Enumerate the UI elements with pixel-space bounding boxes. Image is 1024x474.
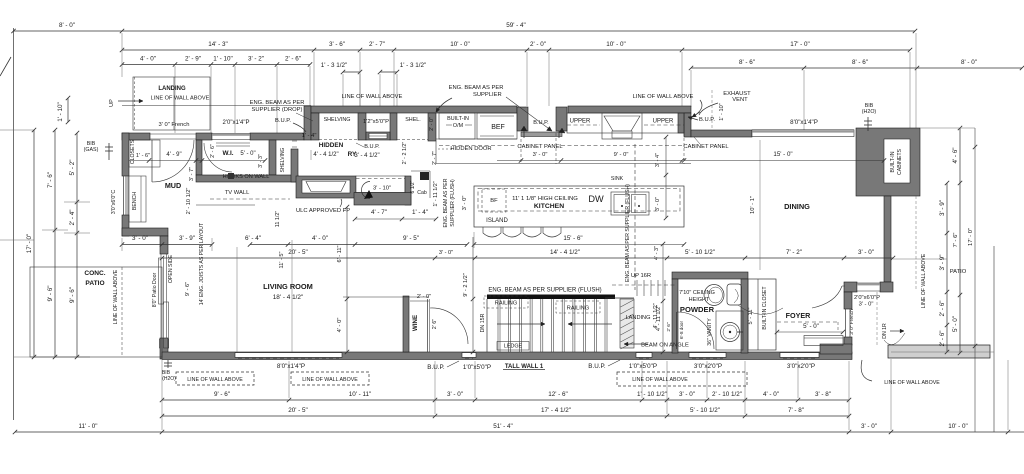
svg-text:2' - 7": 2' - 7" bbox=[432, 151, 438, 165]
svg-text:17' - 4 1/2": 17' - 4 1/2" bbox=[541, 407, 571, 414]
svg-text:3' - 8": 3' - 8" bbox=[815, 391, 831, 398]
svg-text:1'2"x5'0"P: 1'2"x5'0"P bbox=[363, 119, 389, 125]
svg-text:3' - 0": 3' - 0" bbox=[533, 152, 548, 158]
svg-text:2' 6": 2' 6" bbox=[432, 319, 438, 330]
svg-text:7' - 6": 7' - 6" bbox=[953, 233, 959, 248]
svg-text:3' - 0": 3' - 0" bbox=[859, 302, 874, 308]
svg-text:2' - 10 1/2": 2' - 10 1/2" bbox=[712, 391, 742, 398]
svg-text:B.U.P.: B.U.P. bbox=[364, 144, 380, 150]
svg-text:6' - 11": 6' - 11" bbox=[337, 246, 343, 263]
svg-text:4' - 9": 4' - 9" bbox=[166, 152, 181, 158]
svg-text:11' - 5": 11' - 5" bbox=[279, 252, 285, 269]
svg-text:8' - 0": 8' - 0" bbox=[59, 22, 75, 29]
svg-text:1' - 10 1/2": 1' - 10 1/2" bbox=[637, 391, 667, 398]
svg-text:8' - 0": 8' - 0" bbox=[961, 59, 977, 66]
svg-text:2' - 6": 2' - 6" bbox=[939, 330, 946, 346]
svg-text:ENG. BEAM AS PER: ENG. BEAM AS PER bbox=[443, 178, 449, 227]
svg-text:CABINET PANEL: CABINET PANEL bbox=[517, 144, 563, 150]
svg-text:HIDDEN DOOR: HIDDEN DOOR bbox=[450, 146, 491, 152]
svg-text:3' 0" French: 3' 0" French bbox=[159, 122, 190, 128]
svg-text:2' - 9": 2' - 9" bbox=[185, 56, 201, 63]
svg-text:1' - 3 1/2": 1' - 3 1/2" bbox=[321, 62, 348, 69]
svg-text:RAILING: RAILING bbox=[495, 301, 517, 307]
svg-text:DW: DW bbox=[588, 194, 604, 204]
svg-text:2' - 10 1/2": 2' - 10 1/2" bbox=[186, 188, 192, 215]
svg-text:17' - 0": 17' - 0" bbox=[790, 41, 810, 48]
svg-text:BUILT-IN: BUILT-IN bbox=[447, 116, 469, 122]
svg-text:9' - 0": 9' - 0" bbox=[614, 152, 629, 158]
svg-text:LANDING: LANDING bbox=[158, 86, 186, 92]
svg-text:4' - 11 1/2": 4' - 11 1/2" bbox=[653, 303, 659, 328]
svg-text:3' - 9": 3' - 9" bbox=[939, 200, 946, 216]
svg-text:9' - 6": 9' - 6" bbox=[214, 391, 230, 398]
svg-text:ISLAND: ISLAND bbox=[486, 218, 508, 224]
svg-text:UPPER: UPPER bbox=[570, 119, 591, 125]
svg-text:SUPPLIER: SUPPLIER bbox=[473, 92, 502, 98]
svg-text:TALL WALL 1: TALL WALL 1 bbox=[505, 364, 544, 370]
svg-text:2'0"x1'4"P: 2'0"x1'4"P bbox=[223, 120, 250, 126]
svg-text:3' - 0": 3' - 0" bbox=[439, 250, 453, 256]
svg-text:59' - 4": 59' - 4" bbox=[506, 22, 526, 29]
svg-text:1' - 4": 1' - 4" bbox=[302, 133, 317, 139]
svg-text:PATIO: PATIO bbox=[85, 280, 104, 287]
svg-text:18' - 4 1/2": 18' - 4 1/2" bbox=[273, 294, 304, 301]
svg-text:LINE OF WALL ABOVE: LINE OF WALL ABOVE bbox=[342, 94, 403, 100]
svg-text:1' - 3 1/2": 1' - 3 1/2" bbox=[400, 62, 427, 69]
svg-text:RAILING: RAILING bbox=[567, 306, 589, 312]
svg-text:3' - 7": 3' - 7" bbox=[189, 167, 195, 181]
svg-text:B.U.P.: B.U.P. bbox=[275, 118, 291, 124]
svg-text:DN 15R: DN 15R bbox=[480, 313, 486, 332]
svg-text:2' - 2 1/2": 2' - 2 1/2" bbox=[402, 142, 408, 165]
svg-text:2' - 0": 2' - 0" bbox=[429, 117, 435, 131]
svg-text:1'0"x5'0"P: 1'0"x5'0"P bbox=[629, 363, 657, 370]
svg-text:LINE OF WALL ABOVE: LINE OF WALL ABOVE bbox=[632, 377, 688, 383]
svg-text:4' - 0": 4' - 0" bbox=[140, 56, 156, 63]
svg-text:3' - 3": 3' - 3" bbox=[258, 154, 264, 168]
svg-text:SHEL.: SHEL. bbox=[405, 117, 421, 123]
svg-text:17' - 0": 17' - 0" bbox=[26, 234, 33, 254]
svg-text:ENG. BEAM AS PER: ENG. BEAM AS PER bbox=[250, 100, 305, 106]
svg-text:3' - 9": 3' - 9" bbox=[179, 235, 195, 242]
svg-text:14' - 3": 14' - 3" bbox=[208, 41, 228, 48]
svg-text:4' - 4 1/2": 4' - 4 1/2" bbox=[313, 152, 338, 158]
svg-text:(H2O): (H2O) bbox=[862, 109, 877, 115]
svg-text:Cab: Cab bbox=[417, 190, 427, 196]
svg-text:SUPPLIER (DROP): SUPPLIER (DROP) bbox=[252, 107, 303, 113]
svg-text:4' - 7": 4' - 7" bbox=[371, 209, 387, 216]
svg-text:4' - 0": 4' - 0" bbox=[337, 318, 343, 333]
svg-text:1'0"x5'0"P: 1'0"x5'0"P bbox=[463, 364, 491, 371]
svg-text:CONC.: CONC. bbox=[84, 270, 105, 277]
svg-text:10' - 0": 10' - 0" bbox=[606, 41, 626, 48]
svg-text:3' - 10": 3' - 10" bbox=[373, 186, 391, 192]
svg-text:2' - 0": 2' - 0" bbox=[417, 294, 431, 300]
svg-text:ULC APPROVED FP: ULC APPROVED FP bbox=[296, 208, 350, 214]
svg-text:9' - 6": 9' - 6" bbox=[47, 285, 54, 301]
svg-text:LINE OF WALL ABOVE: LINE OF WALL ABOVE bbox=[302, 377, 358, 383]
svg-text:(H2O): (H2O) bbox=[162, 376, 176, 382]
svg-text:4' - 0": 4' - 0" bbox=[312, 235, 328, 242]
svg-text:8' - 6": 8' - 6" bbox=[739, 59, 755, 66]
svg-text:9' - 5": 9' - 5" bbox=[403, 235, 419, 242]
svg-text:14' ENG. JOISTS AS PER LAYOUT: 14' ENG. JOISTS AS PER LAYOUT bbox=[199, 222, 205, 305]
svg-text:SUPPLIER (FLUSH): SUPPLIER (FLUSH) bbox=[450, 179, 456, 227]
svg-text:3' - 0": 3' - 0" bbox=[132, 235, 148, 242]
svg-text:12' - 6": 12' - 6" bbox=[548, 391, 568, 398]
svg-text:3'0"x2'0"P: 3'0"x2'0"P bbox=[787, 363, 815, 370]
svg-text:2' - 0": 2' - 0" bbox=[530, 41, 546, 48]
svg-text:BEF: BEF bbox=[491, 124, 505, 131]
svg-text:1' - 4": 1' - 4" bbox=[412, 209, 428, 216]
svg-text:B.U.P.: B.U.P. bbox=[427, 364, 445, 371]
svg-text:DN 1R: DN 1R bbox=[882, 323, 888, 339]
svg-text:LINE OF WALL ABOVE: LINE OF WALL ABOVE bbox=[113, 269, 119, 324]
svg-text:5' - 0": 5' - 0" bbox=[803, 323, 819, 330]
svg-text:FOYER: FOYER bbox=[786, 311, 812, 320]
svg-text:O/M: O/M bbox=[453, 123, 464, 129]
svg-text:5' - 10 1/2": 5' - 10 1/2" bbox=[685, 249, 715, 256]
svg-text:LINE OF WALL ABOVE: LINE OF WALL ABOVE bbox=[633, 94, 694, 100]
svg-text:CABINETS: CABINETS bbox=[897, 148, 903, 174]
svg-text:5' - 2": 5' - 2" bbox=[69, 159, 76, 175]
svg-text:9' - 2 1/2": 9' - 2 1/2" bbox=[463, 273, 469, 297]
svg-text:4' - 6": 4' - 6" bbox=[952, 147, 959, 163]
svg-text:UPPER: UPPER bbox=[653, 119, 674, 125]
svg-text:3'0"x6'0"C: 3'0"x6'0"C bbox=[111, 190, 117, 215]
svg-text:17' - 0": 17' - 0" bbox=[968, 228, 974, 246]
svg-text:3' - 9": 3' - 9" bbox=[939, 254, 946, 270]
svg-text:2' - 6": 2' - 6" bbox=[939, 300, 946, 316]
svg-text:10' - 11": 10' - 11" bbox=[349, 391, 372, 398]
svg-text:LINE OF WALL ABOVE: LINE OF WALL ABOVE bbox=[187, 377, 243, 383]
svg-text:1' - 10": 1' - 10" bbox=[719, 103, 725, 120]
svg-text:8'0"x1'4"P: 8'0"x1'4"P bbox=[277, 363, 305, 370]
svg-text:14' - 4 1/2": 14' - 4 1/2" bbox=[550, 249, 580, 256]
svg-text:VENT: VENT bbox=[732, 97, 748, 103]
svg-text:OPEN SIDE: OPEN SIDE bbox=[168, 254, 174, 283]
svg-text:LANDING: LANDING bbox=[626, 315, 651, 321]
svg-text:6 1/2": 6 1/2" bbox=[410, 180, 416, 193]
svg-text:DINING: DINING bbox=[784, 202, 810, 211]
svg-text:B.U.P.: B.U.P. bbox=[699, 117, 715, 123]
svg-text:1' - 10": 1' - 10" bbox=[213, 56, 233, 63]
svg-text:7' - 2": 7' - 2" bbox=[786, 249, 802, 256]
svg-text:3' - 0": 3' - 0" bbox=[655, 197, 661, 211]
svg-text:3' - 0": 3' - 0" bbox=[679, 391, 695, 398]
svg-text:3' 0" French: 3' 0" French bbox=[849, 309, 855, 335]
svg-text:20' - 5": 20' - 5" bbox=[288, 407, 308, 414]
svg-text:3' - 6": 3' - 6" bbox=[329, 41, 345, 48]
svg-text:PATIO: PATIO bbox=[950, 269, 967, 275]
svg-text:3' - 4": 3' - 4" bbox=[655, 153, 661, 167]
svg-text:TV WALL: TV WALL bbox=[225, 190, 250, 196]
svg-text:LEDGE: LEDGE bbox=[504, 344, 523, 350]
svg-text:BF: BF bbox=[490, 198, 498, 204]
svg-text:UP: UP bbox=[109, 99, 115, 107]
svg-text:11 1/2": 11 1/2" bbox=[275, 211, 281, 228]
svg-text:5' - 10 1/2": 5' - 10 1/2" bbox=[690, 407, 720, 414]
svg-text:BEAM ON ANGLE: BEAM ON ANGLE bbox=[641, 343, 689, 349]
svg-text:3' - 0": 3' - 0" bbox=[462, 196, 468, 211]
svg-text:1' - 11 1/2": 1' - 11 1/2" bbox=[433, 181, 439, 206]
svg-text:9' - 6": 9' - 6" bbox=[185, 282, 191, 296]
svg-text:1' - 6": 1' - 6" bbox=[136, 153, 150, 159]
svg-text:UP 16R: UP 16R bbox=[631, 273, 651, 279]
svg-text:4' - 0": 4' - 0" bbox=[763, 391, 779, 398]
svg-text:3' - 4 1/2": 3' - 4 1/2" bbox=[354, 153, 379, 159]
svg-text:11' - 0": 11' - 0" bbox=[78, 423, 97, 430]
svg-text:11' 1 1/8" HIGH CEILING: 11' 1 1/8" HIGH CEILING bbox=[512, 196, 578, 202]
svg-text:8' - 6": 8' - 6" bbox=[852, 59, 868, 66]
svg-text:LINE OF WALL ABOVE: LINE OF WALL ABOVE bbox=[151, 96, 210, 102]
svg-text:BENCH: BENCH bbox=[132, 192, 138, 210]
svg-text:LIVING ROOM: LIVING ROOM bbox=[263, 282, 313, 291]
svg-text:B.U.P.: B.U.P. bbox=[588, 363, 606, 370]
svg-text:7' - 8": 7' - 8" bbox=[788, 407, 804, 414]
svg-text:LINE OF WALL ABOVE: LINE OF WALL ABOVE bbox=[884, 380, 940, 386]
svg-text:6'-8 door: 6'-8 door bbox=[679, 321, 684, 339]
svg-text:(GAS): (GAS) bbox=[84, 147, 99, 153]
svg-text:8'0"x1'4"P: 8'0"x1'4"P bbox=[790, 119, 818, 126]
svg-text:3' - 0": 3' - 0" bbox=[858, 249, 874, 256]
svg-text:6' - 4": 6' - 4" bbox=[245, 235, 261, 242]
svg-text:10' - 0": 10' - 0" bbox=[948, 423, 968, 430]
svg-text:15' - 6": 15' - 6" bbox=[563, 235, 582, 242]
svg-text:3'0"x2'0"P: 3'0"x2'0"P bbox=[694, 363, 722, 370]
svg-text:SINK: SINK bbox=[611, 176, 624, 182]
svg-text:SHELVING: SHELVING bbox=[280, 147, 286, 172]
svg-text:20' - 5": 20' - 5" bbox=[288, 249, 308, 256]
svg-text:7' - 6": 7' - 6" bbox=[47, 172, 54, 188]
svg-text:10' - 1": 10' - 1" bbox=[750, 196, 756, 214]
svg-text:2' - 6": 2' - 6" bbox=[210, 144, 216, 158]
svg-text:3' - 0": 3' - 0" bbox=[861, 423, 877, 430]
svg-text:2' - 4": 2' - 4" bbox=[69, 209, 76, 225]
svg-text:8'0" Patio Door: 8'0" Patio Door bbox=[152, 272, 158, 307]
svg-text:5' - 0": 5' - 0" bbox=[952, 316, 959, 332]
svg-text:2'0"x6'0"P: 2'0"x6'0"P bbox=[854, 295, 880, 301]
svg-text:KITCHEN: KITCHEN bbox=[534, 203, 564, 210]
svg-text:51' - 4": 51' - 4" bbox=[493, 423, 513, 430]
svg-text:BUILT-IN CLOSET: BUILT-IN CLOSET bbox=[762, 286, 768, 330]
svg-text:CABINET PANEL: CABINET PANEL bbox=[683, 144, 729, 150]
svg-text:ENG. BEAM AS PER SUPPLIER (FLU: ENG. BEAM AS PER SUPPLIER (FLUSH) bbox=[625, 184, 631, 282]
svg-text:SHELVING: SHELVING bbox=[324, 117, 351, 123]
svg-text:9' - 6": 9' - 6" bbox=[69, 287, 76, 303]
svg-text:WINE: WINE bbox=[412, 315, 419, 331]
svg-text:MUD: MUD bbox=[165, 181, 181, 190]
svg-text:W.I.: W.I. bbox=[222, 150, 233, 157]
svg-text:LINE OF WALL ABOVE: LINE OF WALL ABOVE bbox=[921, 253, 927, 308]
svg-text:5' - 0": 5' - 0" bbox=[240, 151, 255, 157]
svg-text:2' - 6": 2' - 6" bbox=[285, 56, 301, 63]
svg-text:BUILT-IN: BUILT-IN bbox=[890, 151, 896, 172]
svg-text:2' 6": 2' 6" bbox=[666, 322, 672, 332]
svg-text:15' - 0": 15' - 0" bbox=[773, 151, 792, 158]
svg-text:10' - 0": 10' - 0" bbox=[450, 41, 470, 48]
svg-text:2' - 7": 2' - 7" bbox=[369, 41, 385, 48]
svg-text:1' - 10": 1' - 10" bbox=[57, 102, 64, 122]
svg-text:3' - 0": 3' - 0" bbox=[447, 391, 463, 398]
svg-text:ENG. BEAM AS PER: ENG. BEAM AS PER bbox=[449, 85, 504, 91]
svg-text:3' - 2": 3' - 2" bbox=[248, 56, 264, 63]
svg-text:HIDDEN: HIDDEN bbox=[319, 142, 344, 149]
svg-text:5' - 11": 5' - 11" bbox=[748, 308, 754, 325]
svg-text:ENG. BEAM AS PER SUPPLIER (FLU: ENG. BEAM AS PER SUPPLIER (FLUSH) bbox=[488, 288, 601, 294]
